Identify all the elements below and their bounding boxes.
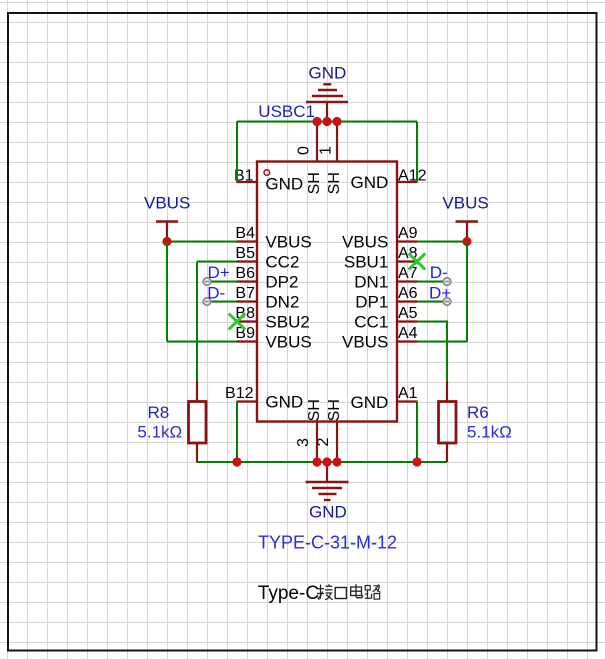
svg-text:VBUS: VBUS: [342, 333, 388, 352]
svg-text:VBUS: VBUS: [342, 233, 388, 252]
svg-text:CC2: CC2: [265, 253, 299, 272]
wire A6 (D+): [417, 301, 447, 303]
pin 1 SH (top): [317, 122, 343, 194]
junction VBUS right: [462, 237, 471, 246]
pin A1 (GND): [351, 385, 418, 412]
wire A4 horizontal: [417, 341, 467, 343]
junction VBUS left: [162, 237, 171, 246]
svg-text:2: 2: [315, 438, 332, 447]
svg-text:VBUS: VBUS: [265, 233, 311, 252]
svg-text:A9: A9: [398, 225, 418, 242]
pin A7 (DN1): [354, 265, 417, 292]
pin A8 (SBU1): [344, 245, 418, 272]
wire B6 (D+): [207, 281, 237, 283]
svg-text:VBUS: VBUS: [144, 194, 190, 213]
svg-text:A5: A5: [398, 305, 418, 322]
unconnected end D- (left): [203, 298, 210, 305]
wire VBUS-right vertical: [466, 242, 468, 342]
svg-text:DN2: DN2: [265, 293, 299, 312]
pin A6 (DP1): [355, 285, 417, 312]
svg-text:TYPE-C-31-M-12: TYPE-C-31-M-12: [258, 532, 397, 552]
svg-text:1: 1: [317, 146, 334, 155]
text title 接 (CJK): [317, 584, 333, 600]
svg-text:A12: A12: [398, 168, 427, 185]
svg-text:A4: A4: [398, 325, 418, 342]
svg-text:D+: D+: [208, 263, 230, 282]
pin B12 (GND): [225, 385, 303, 412]
wire A9 to VBUS-right: [417, 241, 467, 243]
text title 口 (CJK): [335, 588, 346, 599]
pin B9 (VBUS): [235, 325, 311, 352]
wire A7 (D-): [417, 281, 447, 283]
pin A9 (VBUS): [342, 225, 418, 252]
ground symbol GND (top): [306, 84, 348, 122]
wire B4 to VBUS-left: [167, 241, 237, 243]
power symbol VBUS (left): [156, 222, 178, 242]
svg-text:GND: GND: [265, 393, 303, 412]
svg-text:VBUS: VBUS: [442, 194, 488, 213]
svg-text:SBU2: SBU2: [265, 313, 309, 332]
junction dots top SH/GND: [312, 117, 341, 126]
unconnected end D+ (left): [203, 278, 210, 285]
svg-text:DP1: DP1: [355, 293, 388, 312]
svg-text:SBU1: SBU1: [344, 253, 388, 272]
svg-text:SH: SH: [306, 399, 323, 421]
svg-text:3: 3: [295, 438, 312, 447]
pin B7 (DN2): [235, 285, 299, 312]
pin A12 (GND): [351, 168, 427, 193]
svg-text:D-: D-: [430, 263, 448, 282]
svg-text:D+: D+: [429, 283, 451, 302]
wire B9 horizontal: [167, 341, 237, 343]
svg-text:R6: R6: [467, 403, 489, 422]
pin B8 (SBU2): [235, 305, 309, 332]
svg-text:B4: B4: [235, 225, 255, 242]
svg-text:B7: B7: [235, 285, 255, 302]
svg-text:DP2: DP2: [265, 273, 298, 292]
junction B12 bottom: [232, 457, 241, 466]
unconnected end D- (right): [443, 278, 450, 285]
svg-text:0: 0: [295, 146, 312, 155]
power symbol VBUS (right): [456, 222, 479, 242]
no-connect X on pin A8: [409, 253, 426, 269]
svg-text:5.1kΩ: 5.1kΩ: [467, 423, 512, 442]
resistor R8: [189, 382, 207, 463]
wire top-left vertical to B1: [236, 122, 238, 183]
pin B6 (DP2): [235, 265, 298, 292]
wire top-right vertical to A12: [416, 122, 418, 183]
svg-text:B5: B5: [235, 245, 255, 262]
svg-text:D-: D-: [207, 283, 225, 302]
wire bottom horizontal: [197, 461, 448, 463]
pin 2 SH (bottom): [315, 399, 343, 462]
svg-text:USBC1: USBC1: [258, 102, 315, 121]
svg-text:GND: GND: [309, 503, 347, 522]
wire B5 horizontal: [197, 261, 237, 263]
junction dots bottom SH/GND: [312, 457, 341, 466]
pin B5 (CC2): [235, 245, 299, 272]
connector USBC1 body: [257, 162, 397, 422]
wire A1 vertical: [416, 402, 418, 463]
svg-text:DN1: DN1: [354, 273, 388, 292]
no-connect X on pin B8: [229, 313, 246, 329]
pin B1 (GND): [234, 168, 303, 194]
svg-text:SH: SH: [326, 172, 343, 194]
pin A4 (VBUS): [342, 325, 418, 352]
svg-text:GND: GND: [351, 393, 389, 412]
wire A5 to CC1 corner: [417, 322, 447, 383]
wire VBUS-left vertical: [166, 242, 168, 342]
svg-text:R8: R8: [148, 403, 170, 422]
wire CC2 vertical to R8: [196, 262, 198, 383]
pin B4 (VBUS): [235, 225, 311, 252]
wire top horizontal: [237, 121, 417, 123]
wire B12 vertical: [236, 402, 238, 463]
ground symbol GND (bottom): [306, 462, 349, 500]
pin 3 SH (bottom): [295, 399, 323, 462]
resistor R6: [439, 382, 457, 463]
svg-text:B6: B6: [235, 265, 255, 282]
svg-text:A7: A7: [398, 265, 418, 282]
svg-text:GND: GND: [351, 173, 389, 192]
pin A5 (CC1): [354, 305, 417, 332]
wire B7 (D-): [207, 301, 237, 303]
svg-text:SH: SH: [306, 172, 323, 194]
svg-text:B12: B12: [225, 385, 254, 402]
svg-text:VBUS: VBUS: [265, 333, 311, 352]
unconnected end D+ (right): [443, 298, 450, 305]
svg-text:A1: A1: [398, 385, 418, 402]
text title 路 (CJK): [365, 585, 381, 600]
junction A1 bottom: [412, 457, 421, 466]
svg-text:A6: A6: [398, 285, 418, 302]
svg-text:GND: GND: [265, 175, 303, 194]
svg-text:5.1kΩ: 5.1kΩ: [137, 422, 182, 441]
svg-text:CC1: CC1: [354, 313, 388, 332]
svg-text:Type-C: Type-C: [258, 583, 319, 604]
svg-text:GND: GND: [309, 64, 347, 83]
text title 电 (CJK): [351, 584, 363, 597]
svg-text:SH: SH: [326, 399, 343, 421]
pin 0 SH (top): [295, 122, 323, 194]
